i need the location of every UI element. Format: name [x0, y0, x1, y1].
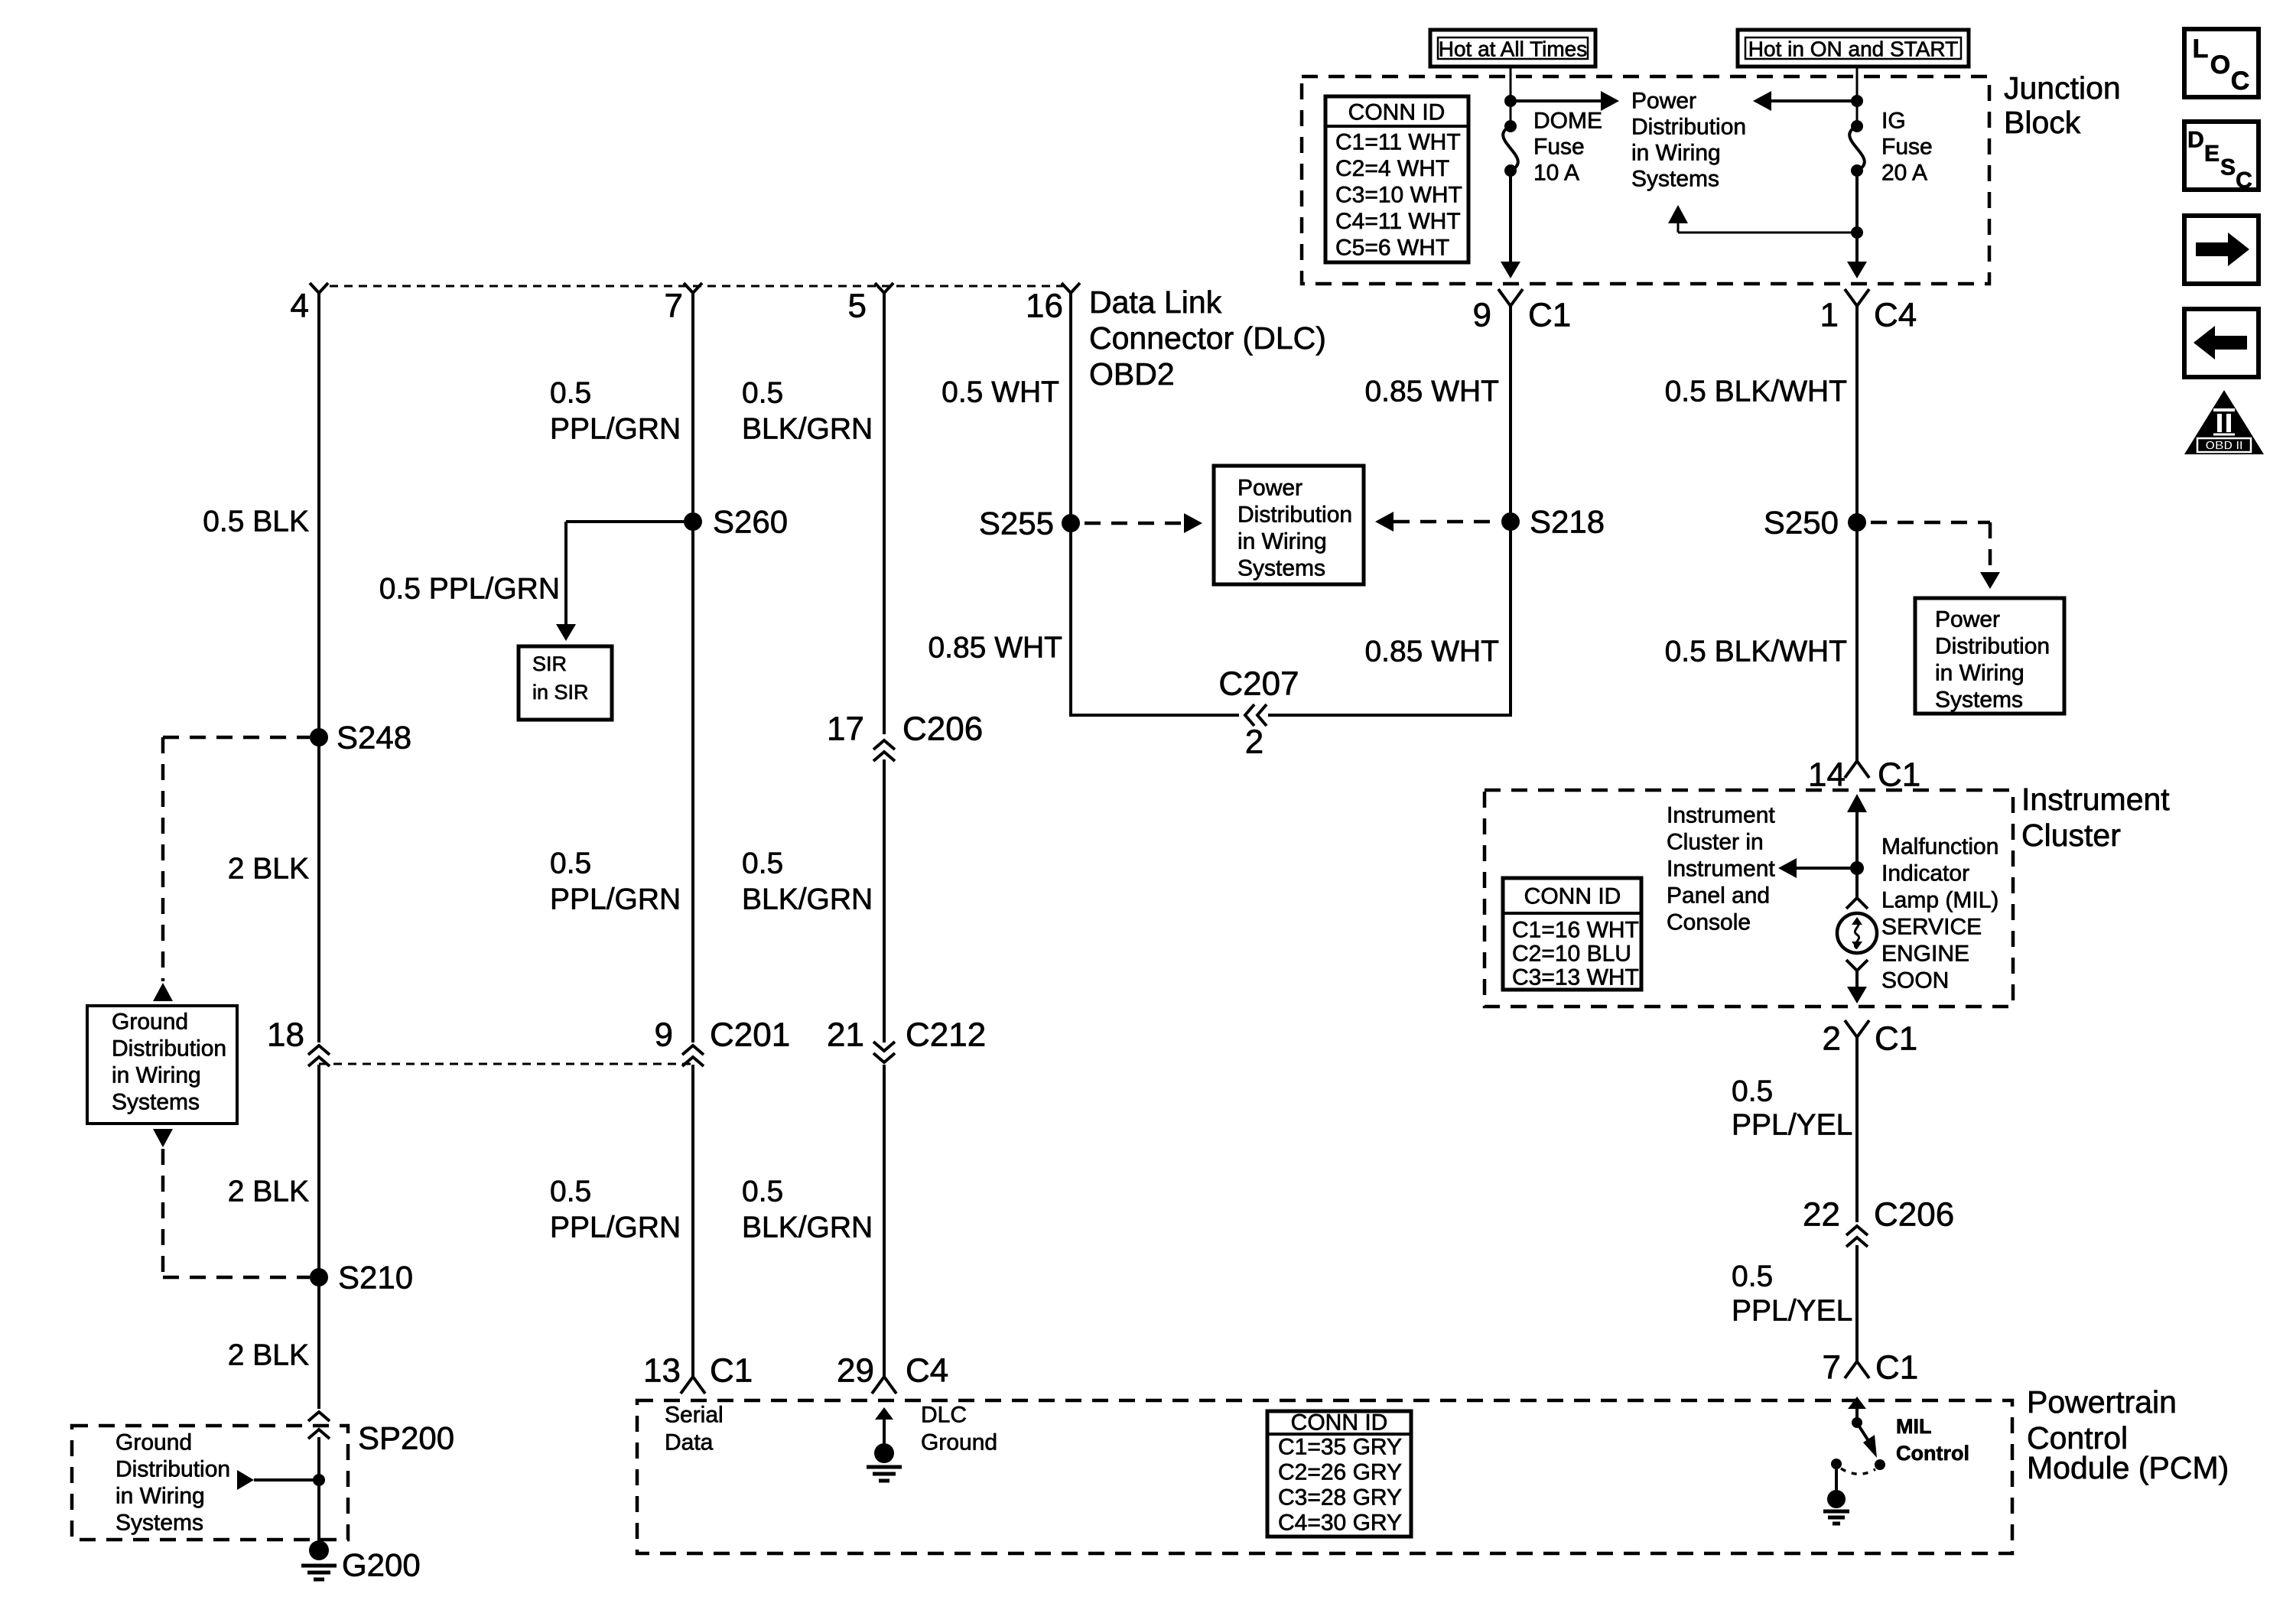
svg-text:O: O — [2210, 50, 2230, 80]
svg-text:BLK/GRN: BLK/GRN — [742, 1212, 873, 1244]
svg-text:SOON: SOON — [1881, 968, 1949, 994]
svg-text:C2=26 GRY: C2=26 GRY — [1278, 1460, 1402, 1485]
svg-text:Fuse: Fuse — [1533, 135, 1585, 160]
svg-text:10 A: 10 A — [1533, 161, 1579, 186]
svg-text:Connector (DLC): Connector (DLC) — [1089, 320, 1326, 356]
svg-text:S255: S255 — [979, 506, 1054, 542]
svg-text:IG: IG — [1881, 109, 1906, 134]
svg-text:Indicator: Indicator — [1881, 861, 1969, 886]
svg-text:Data Link: Data Link — [1089, 285, 1222, 320]
svg-text:Ground: Ground — [921, 1430, 997, 1456]
svg-text:Cluster: Cluster — [2021, 818, 2121, 853]
svg-text:16: 16 — [1026, 288, 1063, 325]
svg-text:9: 9 — [655, 1016, 673, 1054]
svg-text:Systems: Systems — [1237, 556, 1325, 581]
svg-text:PPL/GRN: PPL/GRN — [550, 1212, 681, 1244]
svg-text:Power: Power — [1631, 89, 1696, 114]
svg-text:S210: S210 — [338, 1260, 413, 1296]
svg-text:7: 7 — [1823, 1349, 1841, 1387]
svg-text:DLC: DLC — [921, 1403, 967, 1428]
svg-text:MIL: MIL — [1896, 1415, 1932, 1438]
svg-text:22: 22 — [1803, 1196, 1840, 1234]
svg-text:0.5: 0.5 — [550, 377, 591, 410]
svg-text:Control: Control — [1896, 1442, 1969, 1465]
svg-text:2 BLK: 2 BLK — [228, 853, 309, 886]
svg-text:0.5: 0.5 — [550, 1176, 591, 1208]
svg-text:Console: Console — [1667, 910, 1751, 935]
svg-text:PPL/GRN: PPL/GRN — [550, 883, 681, 916]
svg-text:C212: C212 — [906, 1016, 986, 1054]
svg-text:0.5: 0.5 — [1732, 1260, 1773, 1293]
svg-text:E: E — [2204, 141, 2220, 167]
svg-text:Systems: Systems — [1631, 167, 1719, 192]
svg-text:C: C — [2236, 168, 2252, 194]
svg-text:in SIR: in SIR — [532, 681, 589, 704]
svg-text:Panel and: Panel and — [1667, 883, 1770, 909]
svg-text:0.5: 0.5 — [742, 847, 783, 880]
svg-text:SP200: SP200 — [358, 1420, 454, 1456]
svg-text:13: 13 — [643, 1352, 681, 1390]
svg-text:0.85 WHT: 0.85 WHT — [928, 632, 1062, 665]
svg-text:C4: C4 — [1874, 297, 1917, 334]
svg-text:C4=30 GRY: C4=30 GRY — [1278, 1511, 1402, 1536]
svg-text:C4: C4 — [906, 1352, 948, 1390]
svg-text:Hot in ON and START: Hot in ON and START — [1748, 37, 1958, 61]
svg-text:0.5 BLK/WHT: 0.5 BLK/WHT — [1665, 636, 1847, 668]
svg-text:Instrument: Instrument — [1667, 857, 1775, 882]
svg-text:2 BLK: 2 BLK — [228, 1339, 309, 1372]
svg-text:S248: S248 — [337, 720, 411, 756]
svg-text:5: 5 — [848, 288, 867, 325]
svg-text:C1=11 WHT: C1=11 WHT — [1335, 130, 1461, 155]
svg-text:29: 29 — [837, 1352, 874, 1390]
svg-text:Power: Power — [1935, 607, 2000, 633]
svg-text:20 A: 20 A — [1881, 161, 1927, 186]
svg-text:Ground: Ground — [112, 1010, 188, 1035]
svg-text:C1: C1 — [1875, 1349, 1918, 1387]
svg-text:DOME: DOME — [1533, 109, 1602, 134]
svg-text:Powertrain: Powertrain — [2027, 1384, 2177, 1420]
svg-text:2: 2 — [1245, 724, 1263, 761]
svg-text:0.5: 0.5 — [1732, 1075, 1773, 1108]
svg-text:C206: C206 — [1874, 1196, 1954, 1234]
svg-text:C1: C1 — [1528, 297, 1571, 334]
svg-text:PPL/GRN: PPL/GRN — [550, 413, 681, 446]
svg-text:in Wiring: in Wiring — [1935, 661, 2024, 686]
svg-text:C1: C1 — [1875, 1020, 1917, 1058]
svg-text:in Wiring: in Wiring — [1631, 141, 1721, 166]
svg-text:0.5 BLK: 0.5 BLK — [203, 506, 309, 538]
svg-text:0.5 PPL/GRN: 0.5 PPL/GRN — [379, 573, 560, 606]
svg-text:14: 14 — [1808, 756, 1846, 794]
svg-text:SERVICE: SERVICE — [1881, 915, 1982, 940]
svg-text:D: D — [2187, 128, 2204, 153]
svg-text:C: C — [2231, 67, 2250, 96]
svg-text:Power: Power — [1237, 476, 1302, 501]
svg-text:Distribution: Distribution — [1631, 115, 1746, 140]
svg-text:18: 18 — [267, 1016, 304, 1054]
svg-text:C2=10 BLU: C2=10 BLU — [1512, 942, 1631, 967]
svg-text:Ground: Ground — [115, 1430, 192, 1456]
svg-text:Junction: Junction — [2004, 70, 2121, 106]
svg-text:PPL/YEL: PPL/YEL — [1732, 1109, 1852, 1142]
svg-text:C207: C207 — [1218, 665, 1299, 703]
svg-text:ENGINE: ENGINE — [1881, 942, 1969, 967]
svg-text:Lamp (MIL): Lamp (MIL) — [1881, 888, 1998, 913]
svg-text:C4=11 WHT: C4=11 WHT — [1335, 209, 1461, 234]
svg-text:Fuse: Fuse — [1881, 135, 1933, 160]
svg-text:OBD II: OBD II — [2206, 440, 2243, 453]
svg-text:C3=28 GRY: C3=28 GRY — [1278, 1485, 1402, 1511]
svg-text:C1=35 GRY: C1=35 GRY — [1278, 1435, 1402, 1460]
svg-text:BLK/GRN: BLK/GRN — [742, 883, 873, 916]
svg-text:S250: S250 — [1764, 505, 1839, 541]
svg-text:PPL/YEL: PPL/YEL — [1732, 1295, 1852, 1328]
svg-text:C1: C1 — [1878, 756, 1920, 794]
svg-text:0.5: 0.5 — [742, 1176, 783, 1208]
svg-text:C5=6 WHT: C5=6 WHT — [1335, 236, 1449, 261]
svg-text:SIR: SIR — [532, 652, 567, 675]
svg-text:0.5: 0.5 — [742, 377, 783, 410]
svg-text:Cluster in: Cluster in — [1667, 830, 1764, 855]
svg-text:Instrument: Instrument — [2021, 782, 2170, 817]
svg-text:L: L — [2193, 34, 2209, 63]
svg-text:Serial: Serial — [665, 1403, 724, 1428]
svg-text:C1=16 WHT: C1=16 WHT — [1512, 918, 1639, 943]
svg-text:Systems: Systems — [115, 1511, 203, 1536]
svg-text:9: 9 — [1473, 297, 1491, 334]
svg-text:Distribution: Distribution — [115, 1457, 230, 1482]
svg-text:Distribution: Distribution — [1935, 634, 2050, 659]
svg-text:0.85 WHT: 0.85 WHT — [1364, 376, 1499, 408]
svg-text:0.5: 0.5 — [550, 847, 591, 880]
svg-text:Module (PCM): Module (PCM) — [2027, 1450, 2229, 1485]
svg-text:G200: G200 — [342, 1547, 421, 1583]
svg-text:Systems: Systems — [112, 1090, 200, 1115]
svg-text:S218: S218 — [1530, 504, 1605, 540]
svg-text:Distribution: Distribution — [1237, 503, 1352, 528]
svg-text:Hot at All Times: Hot at All Times — [1439, 37, 1588, 61]
svg-text:in Wiring: in Wiring — [112, 1063, 201, 1088]
svg-text:4: 4 — [291, 288, 309, 325]
svg-text:0.85 WHT: 0.85 WHT — [1364, 636, 1499, 668]
svg-text:C201: C201 — [710, 1016, 790, 1054]
svg-text:Systems: Systems — [1935, 688, 2023, 713]
svg-text:Instrument: Instrument — [1667, 803, 1775, 828]
svg-text:Distribution: Distribution — [112, 1036, 226, 1062]
svg-text:S: S — [2220, 155, 2236, 181]
svg-text:in Wiring: in Wiring — [115, 1484, 205, 1509]
svg-text:0.5 WHT: 0.5 WHT — [941, 376, 1059, 409]
svg-text:Data: Data — [665, 1430, 714, 1456]
svg-text:C1: C1 — [710, 1352, 753, 1390]
svg-text:S260: S260 — [713, 504, 788, 540]
svg-text:BLK/GRN: BLK/GRN — [742, 413, 873, 446]
svg-text:1: 1 — [1820, 297, 1839, 334]
svg-text:C3=13 WHT: C3=13 WHT — [1512, 965, 1639, 990]
svg-text:OBD2: OBD2 — [1089, 356, 1175, 392]
svg-text:in Wiring: in Wiring — [1237, 529, 1327, 555]
svg-text:C206: C206 — [902, 711, 983, 748]
svg-text:17: 17 — [827, 711, 864, 748]
svg-text:CONN ID: CONN ID — [1291, 1410, 1388, 1436]
svg-text:7: 7 — [665, 288, 683, 325]
svg-text:C2=4 WHT: C2=4 WHT — [1335, 156, 1449, 181]
svg-text:C3=10 WHT: C3=10 WHT — [1335, 183, 1462, 208]
svg-text:Block: Block — [2004, 105, 2081, 140]
svg-text:2: 2 — [1823, 1020, 1841, 1058]
svg-text:Malfunction: Malfunction — [1881, 834, 1998, 860]
svg-text:21: 21 — [827, 1016, 864, 1054]
svg-text:CONN ID: CONN ID — [1524, 884, 1621, 909]
svg-text:2 BLK: 2 BLK — [228, 1176, 309, 1208]
svg-text:CONN ID: CONN ID — [1348, 100, 1446, 125]
svg-text:0.5 BLK/WHT: 0.5 BLK/WHT — [1665, 376, 1847, 408]
